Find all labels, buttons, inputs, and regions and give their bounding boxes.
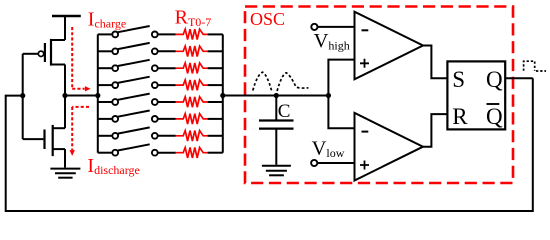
wire stub bus to switch T4 xyxy=(98,101,113,103)
wire NMOS source to ground xyxy=(64,149,66,167)
wire stub bus to switch T2 xyxy=(98,67,113,69)
svg-text:C: C xyxy=(278,101,291,122)
wire NMOS gate xyxy=(23,138,44,140)
switch S4 lever xyxy=(118,94,150,100)
switch S5 lever xyxy=(118,111,150,117)
wire tap to comparator U2 - input xyxy=(328,96,354,129)
waveform sawtooth (dashed) xyxy=(253,72,272,90)
wire stub bus to switch T7 xyxy=(98,152,113,154)
wire switch S5 to resistor T5 xyxy=(158,118,176,120)
switch S7 left terminal xyxy=(112,150,118,156)
switch S4 left terminal xyxy=(112,99,118,105)
switch S5 left terminal xyxy=(112,116,118,122)
wire right bus to comparator tap xyxy=(223,95,329,97)
wire switch S1 to resistor T1 xyxy=(158,50,176,52)
wire resistor T2 to right bus xyxy=(208,67,223,69)
resistor T7 xyxy=(176,148,208,158)
switch S1 right terminal xyxy=(152,48,158,54)
capacitor C xyxy=(259,96,294,165)
V_low terminal xyxy=(311,160,317,166)
resistor T3 xyxy=(176,80,208,90)
U2 plus sign xyxy=(360,161,369,170)
V_high terminal xyxy=(311,24,317,30)
svg-text:R: R xyxy=(452,104,468,129)
switch S0 left terminal xyxy=(112,32,118,38)
switch S0 lever xyxy=(118,26,150,32)
wire PMOS gate to gate tie xyxy=(23,53,39,55)
op-amp U1 (upper comparator) xyxy=(355,12,424,80)
op-amp U2 (lower comparator) xyxy=(355,113,424,181)
switch S6 right terminal xyxy=(152,133,158,139)
switch S2 left terminal xyxy=(112,65,118,71)
wire gate tie vertical xyxy=(22,54,24,139)
switch S5 right terminal xyxy=(152,116,158,122)
svg-text:S: S xyxy=(452,67,465,92)
wire switch S7 to resistor T7 xyxy=(158,152,176,154)
switch S7 right terminal xyxy=(152,150,158,156)
node left bus junction xyxy=(95,93,100,98)
transistor M1 (PMOS) xyxy=(38,39,65,66)
wire switch S3 to resistor T3 xyxy=(158,84,176,86)
resistor T1 xyxy=(176,46,208,56)
wire U2 output to R xyxy=(423,114,447,147)
node gate tie junction xyxy=(20,93,25,98)
node comparator tap junction xyxy=(326,93,331,98)
switch S7 lever xyxy=(118,144,150,150)
switch S2 right terminal xyxy=(152,65,158,71)
wire resistor T4 to right bus xyxy=(208,101,223,103)
node drain junction xyxy=(62,93,67,98)
wire stub bus to switch T6 xyxy=(98,135,113,137)
resistor T6 xyxy=(176,131,208,141)
wire stub bus to switch T3 xyxy=(98,84,113,86)
U2 minus sign xyxy=(362,131,369,133)
wire left switch bus xyxy=(97,34,99,152)
switch S3 lever xyxy=(118,77,150,83)
wire switch S6 to resistor T6 xyxy=(158,135,176,137)
resistor T5 xyxy=(176,114,208,124)
wire V_high to U1 - input xyxy=(318,26,355,28)
svg-text:OSC: OSC xyxy=(250,9,285,29)
resistor T2 xyxy=(176,63,208,73)
wire NMOS drain up xyxy=(64,96,66,129)
resistor T0 xyxy=(176,29,208,39)
ground under M2 xyxy=(50,169,80,178)
output square-wave icon xyxy=(524,61,535,71)
node capacitor junction xyxy=(274,93,279,98)
wire V_low to U2 + input xyxy=(317,162,354,164)
transistor M2 (NMOS) xyxy=(45,125,66,156)
wire switch S0 to resistor T0 xyxy=(158,33,176,35)
wire stub bus to switch T0 xyxy=(98,33,113,35)
node right bus junction xyxy=(220,93,225,98)
switch S6 lever xyxy=(118,127,150,133)
wire resistor T5 to right bus xyxy=(208,118,223,120)
switch S0 right terminal xyxy=(152,32,158,38)
wire resistor T1 to right bus xyxy=(208,50,223,52)
SR latch U3 xyxy=(447,61,505,129)
wire resistor T0 to right bus xyxy=(208,33,223,35)
VDD rail xyxy=(52,15,81,17)
wire Q output xyxy=(505,77,533,79)
current arrow I_charge xyxy=(72,27,84,89)
switch S1 lever xyxy=(118,43,150,49)
wire PMOS drain down xyxy=(64,65,66,96)
switch S3 left terminal xyxy=(112,82,118,88)
OSC dashed box xyxy=(245,7,513,184)
wire switch S2 to resistor T2 xyxy=(158,67,176,69)
wire stub bus to switch T5 xyxy=(98,118,113,120)
switch S1 left terminal xyxy=(112,48,118,54)
current arrow I_discharge xyxy=(72,107,89,150)
svg-text:Q: Q xyxy=(486,104,503,129)
wire resistor T6 to right bus xyxy=(208,135,223,137)
wire tap to comparator U1 + input xyxy=(328,60,354,96)
wire right resistor bus xyxy=(222,34,224,152)
switch S6 left terminal xyxy=(112,133,118,139)
svg-text:Q: Q xyxy=(486,67,503,92)
switch S3 right terminal xyxy=(152,82,158,88)
wire feedback to gate node xyxy=(6,78,533,211)
wire resistor T3 to right bus xyxy=(208,84,223,86)
U1 minus sign xyxy=(362,29,369,31)
U1 plus sign xyxy=(360,59,369,68)
switch S4 right terminal xyxy=(152,99,158,105)
wire stub bus to switch T1 xyxy=(98,50,113,52)
wire drain node to left bus xyxy=(65,95,98,97)
switch S2 lever xyxy=(118,60,150,66)
ground under C xyxy=(262,166,291,176)
wire resistor T7 to right bus xyxy=(208,152,223,154)
wire U1 output to S xyxy=(423,46,447,79)
wire rail to PMOS source xyxy=(64,16,66,40)
wire switch S4 to resistor T4 xyxy=(158,101,176,103)
resistor T4 xyxy=(176,97,208,107)
